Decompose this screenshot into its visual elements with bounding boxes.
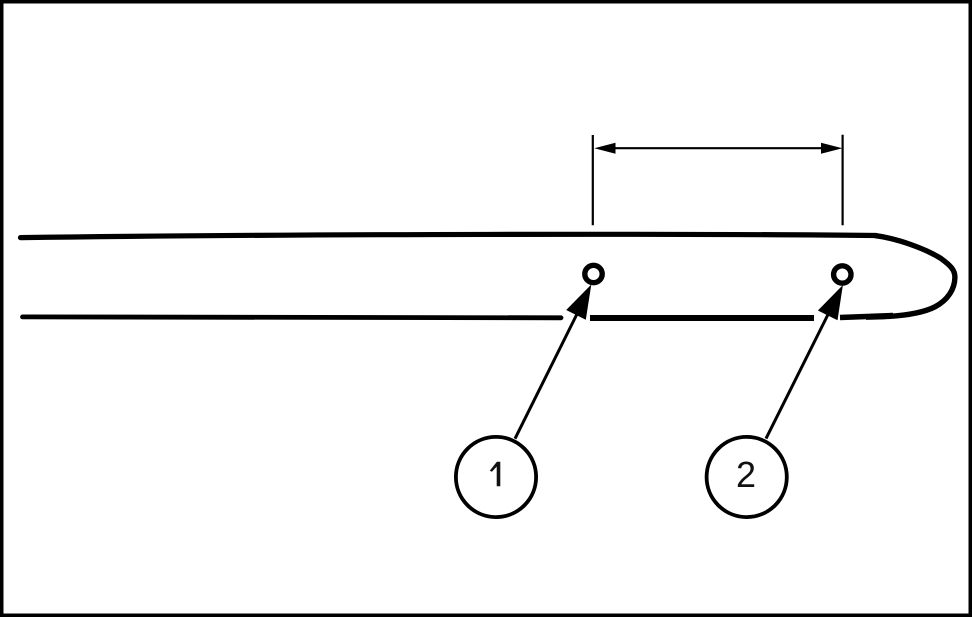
- dimension line: [611, 147, 824, 149]
- svg-text:2: 2: [736, 454, 756, 495]
- blade bottom edge left segment: [23, 314, 562, 320]
- leader arrowhead 2: [818, 285, 843, 320]
- blade end cap: [866, 236, 955, 318]
- dimension arrowhead right: [821, 143, 842, 154]
- leader 2: [766, 315, 828, 439]
- extension line left: [592, 135, 594, 225]
- leader 1: [515, 314, 577, 439]
- callout circle 1: [456, 437, 536, 517]
- blade bottom edge middle segment: [590, 315, 814, 321]
- blade top edge: [21, 234, 877, 237]
- label 1: [490, 462, 501, 487]
- dimension arrowhead left: [594, 143, 615, 154]
- callout circle 2: [707, 437, 787, 517]
- hole 2: [834, 266, 851, 283]
- leader arrowhead 1: [566, 285, 591, 320]
- extension line right: [841, 135, 843, 226]
- hole 1: [585, 265, 602, 282]
- blade bottom edge right segment: [840, 316, 893, 318]
